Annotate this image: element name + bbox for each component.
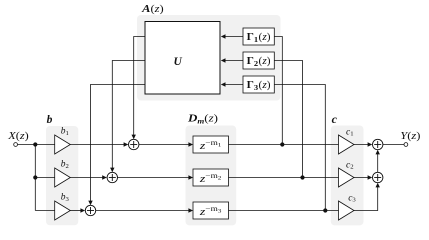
- output terminal: [404, 143, 408, 147]
- wire tap2 to gamma2: [274, 61, 302, 178]
- arrow into sum2 top: [110, 168, 114, 173]
- wire b3 to sum3: [70, 210, 84, 212]
- shaded region A(z): [137, 15, 281, 101]
- shaded region c column: [331, 126, 364, 226]
- node dot input row2: [33, 175, 37, 179]
- sum2: [107, 172, 117, 182]
- wire node to b1: [35, 144, 54, 146]
- block Gamma3: [243, 76, 274, 93]
- wire delay3 to c3: [229, 210, 339, 212]
- arrow into delay1: [188, 142, 193, 146]
- wire tap1 to gamma1: [274, 37, 282, 145]
- wire input X(z) to node: [18, 144, 36, 146]
- arrow into delay3: [188, 208, 193, 212]
- wire gamma2 to U: [222, 60, 244, 62]
- arrow into U right 2: [221, 58, 226, 62]
- svg-text:c: c: [332, 112, 338, 126]
- wire tap3 to gamma3: [274, 85, 325, 211]
- wire corner to b3: [35, 210, 54, 212]
- wire b2 to sum2: [70, 177, 106, 179]
- amplifier c2: [339, 168, 355, 187]
- svg-text:Γ1(z): Γ1(z): [247, 32, 271, 44]
- amplifier b1: [55, 135, 71, 154]
- amplifier b3: [55, 201, 71, 220]
- node dot input row1: [33, 142, 37, 146]
- sum3: [85, 205, 95, 215]
- arrow into sum4 bottom: [376, 150, 380, 155]
- node dot tap2: [300, 175, 304, 179]
- wire sum4 to output: [383, 144, 404, 146]
- input terminal: [14, 143, 18, 147]
- wire U out2 to sum2: [112, 61, 145, 172]
- wire U out3 to sum3: [91, 85, 146, 205]
- amplifier c1: [339, 135, 355, 154]
- wire sum3 to delay3: [96, 210, 193, 212]
- arrow into delay2: [188, 175, 193, 179]
- svg-text:U: U: [173, 56, 182, 68]
- svg-text:Γ3(z): Γ3(z): [247, 80, 271, 92]
- wire delay1 to c1: [229, 144, 339, 146]
- block delay2: [193, 169, 229, 186]
- sum1: [129, 139, 139, 149]
- amplifier b2: [55, 168, 71, 187]
- amplifier c3: [339, 201, 355, 220]
- wire c1 to sum4: [354, 144, 372, 146]
- svg-text:b: b: [47, 114, 53, 126]
- block delay3: [193, 202, 229, 219]
- arrow into sum3 top: [88, 201, 92, 206]
- wire sum2 to delay2: [118, 177, 193, 179]
- shaded region b column: [46, 126, 78, 225]
- wire c3 up to sum5: [354, 184, 378, 211]
- arrow into sum3 left: [80, 208, 85, 212]
- block Gamma2: [243, 52, 274, 69]
- arrow into sum5 bottom: [376, 183, 380, 188]
- shaded region Dm column: [186, 126, 237, 226]
- svg-text:Γ2(z): Γ2(z): [247, 56, 271, 68]
- wire input vertical bus: [34, 145, 36, 211]
- block Gamma1: [243, 28, 274, 45]
- wire gamma1 to U: [222, 36, 244, 38]
- svg-text:X(z): X(z): [7, 130, 29, 142]
- sum5: [373, 172, 383, 182]
- block delay1: [193, 136, 229, 153]
- node dot tap3: [323, 208, 327, 212]
- arrow into U right 3: [221, 82, 226, 86]
- wire delay2 to c2: [229, 177, 339, 179]
- block U: [145, 22, 220, 95]
- arrow into sum5 left: [368, 175, 373, 179]
- wire U out1 to sum1: [134, 37, 145, 139]
- wire node to b2: [35, 177, 54, 179]
- arrow into sum1 top: [132, 135, 136, 140]
- wire gamma3 to U: [222, 84, 244, 86]
- arrow into sum2 left: [102, 175, 107, 179]
- arrow into U right 1: [221, 34, 226, 38]
- wire b1 to sum1: [70, 144, 127, 146]
- node dot tap1: [280, 142, 284, 146]
- svg-text:Y(z): Y(z): [400, 130, 421, 142]
- wire sum1 to delay1: [139, 144, 192, 146]
- arrow into sum1 left: [124, 142, 129, 146]
- sum4: [373, 139, 383, 149]
- arrow into sum4 left: [368, 142, 373, 146]
- wire c2 to sum5: [354, 177, 372, 179]
- wire sum5 to sum4: [377, 151, 379, 173]
- svg-text:A(z): A(z): [141, 3, 164, 15]
